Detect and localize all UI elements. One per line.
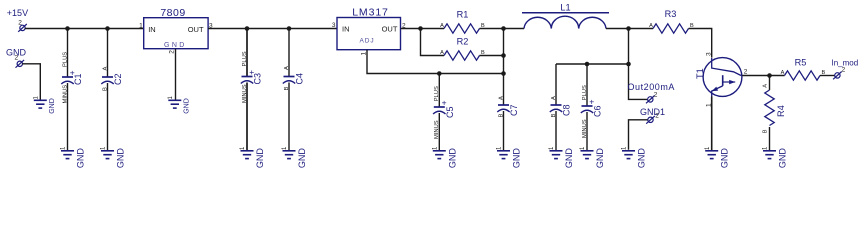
- svg-text:1: 1: [34, 96, 40, 100]
- wire T1 emitter to ground: [711, 97, 713, 151]
- svg-text:GND: GND: [447, 148, 457, 169]
- wire C6 top: [586, 64, 588, 106]
- ground C7: [497, 150, 510, 152]
- wire R2 left branch: [421, 29, 445, 56]
- svg-text:C8: C8: [562, 104, 572, 116]
- wire C3 bottom: [246, 83, 248, 151]
- wire LM317 OUT to R1: [401, 28, 444, 30]
- ground C2: [101, 150, 114, 152]
- svg-text:7809: 7809: [160, 7, 185, 19]
- svg-text:3: 3: [332, 22, 336, 29]
- svg-text:GND: GND: [116, 148, 126, 169]
- wire C8 top: [555, 64, 557, 105]
- resistor R1: [444, 24, 479, 33]
- svg-text:1: 1: [433, 146, 439, 150]
- svg-text:1: 1: [282, 146, 288, 150]
- svg-text:A: A: [781, 70, 785, 76]
- svg-text:C7: C7: [509, 104, 519, 116]
- node junction C6 tap: [585, 62, 590, 67]
- svg-text:2: 2: [655, 113, 659, 120]
- svg-text:GND: GND: [564, 148, 574, 169]
- svg-text:2: 2: [744, 68, 748, 75]
- svg-text:L1: L1: [560, 3, 570, 13]
- node junction C4: [287, 26, 292, 31]
- wire C3 top: [246, 29, 248, 77]
- node junction R2 left: [418, 26, 423, 31]
- svg-text:GND: GND: [297, 148, 307, 169]
- svg-text:Out200mA: Out200mA: [628, 82, 675, 92]
- wire L1 node down to Out200mA: [629, 29, 648, 100]
- node junction R1 right: [501, 26, 506, 31]
- wire R3 right to T1 collector: [689, 29, 712, 58]
- ground C6: [581, 150, 594, 152]
- wire C5 top: [438, 74, 440, 108]
- svg-text:A: A: [102, 67, 108, 71]
- wire +15V rail to 7809 IN: [25, 28, 144, 30]
- svg-text:1: 1: [360, 52, 367, 56]
- node junction L1 right: [626, 26, 631, 31]
- node junction C2: [105, 26, 110, 31]
- node junction lower line right: [626, 62, 631, 67]
- wire C7 bottom: [503, 111, 505, 150]
- svg-text:R3: R3: [665, 9, 677, 19]
- wire C4 bottom: [288, 83, 290, 151]
- svg-text:IN: IN: [342, 25, 350, 34]
- svg-text:2: 2: [168, 50, 175, 54]
- svg-text:PLUS: PLUS: [582, 85, 588, 100]
- wire R4 top: [769, 76, 771, 91]
- wire C1 bottom: [67, 83, 69, 150]
- svg-text:GND: GND: [637, 148, 647, 169]
- node junction C3: [245, 26, 250, 31]
- ground (T1): [705, 150, 718, 152]
- wire 7809 OUT to LM317 IN: [208, 28, 337, 30]
- svg-text:R4: R4: [776, 105, 786, 117]
- wire C2 top: [107, 29, 109, 78]
- ground (R4): [763, 150, 776, 152]
- svg-text:T1: T1: [695, 68, 705, 79]
- svg-text:2: 2: [842, 67, 846, 74]
- wire C6 bottom: [586, 112, 588, 150]
- svg-text:1: 1: [168, 96, 174, 100]
- node junction R2 right: [501, 53, 506, 58]
- svg-text:C2: C2: [113, 73, 123, 85]
- svg-text:2: 2: [15, 55, 19, 62]
- svg-text:R5: R5: [795, 57, 807, 67]
- svg-text:OUT: OUT: [382, 25, 398, 34]
- node junction R4 tap: [767, 73, 772, 78]
- wire R1 right to L1: [480, 28, 525, 30]
- svg-text:1: 1: [622, 146, 628, 150]
- svg-text:3: 3: [705, 52, 712, 56]
- svg-text:+: +: [589, 97, 594, 107]
- ground (input GND): [34, 99, 47, 101]
- capacitor C7: [498, 104, 509, 106]
- svg-text:GND: GND: [76, 148, 86, 169]
- wire lower filter line: [556, 63, 629, 65]
- svg-text:GND: GND: [778, 148, 788, 169]
- svg-text:+: +: [249, 67, 254, 77]
- svg-text:GND: GND: [595, 148, 605, 169]
- svg-text:B: B: [762, 129, 768, 133]
- svg-text:A: A: [440, 23, 444, 29]
- svg-text:R2: R2: [457, 36, 469, 46]
- svg-text:+15V: +15V: [7, 8, 28, 18]
- svg-text:1: 1: [705, 146, 711, 150]
- svg-text:GND: GND: [183, 98, 190, 114]
- svg-text:1: 1: [497, 146, 503, 150]
- svg-text:OUT: OUT: [188, 25, 204, 34]
- wire GND1 to ground: [629, 120, 648, 150]
- wire R5 to In_mod connector: [820, 75, 835, 77]
- wire 7809 GND pin down: [175, 49, 177, 100]
- node junction C1: [65, 26, 70, 31]
- ground C1: [61, 150, 74, 152]
- svg-text:1: 1: [763, 146, 769, 150]
- wire C5 bottom: [438, 113, 440, 150]
- wire L1 right to R3: [606, 28, 653, 30]
- svg-text:GND: GND: [49, 98, 56, 114]
- ground C4: [283, 150, 296, 152]
- svg-text:1: 1: [101, 146, 107, 150]
- svg-text:C4: C4: [295, 73, 305, 85]
- ground (7809 GND): [168, 99, 181, 101]
- wire R4 bottom to ground: [769, 127, 771, 150]
- svg-text:1: 1: [240, 146, 246, 150]
- svg-text:A: A: [649, 23, 653, 29]
- svg-text:C6: C6: [593, 105, 603, 117]
- svg-text:GND1: GND1: [640, 107, 665, 117]
- wire C8 bottom: [555, 111, 557, 150]
- svg-text:2: 2: [18, 19, 22, 26]
- svg-text:LM317: LM317: [352, 7, 389, 19]
- svg-text:A: A: [498, 96, 504, 100]
- wire node column right of R1/R2: [503, 29, 505, 106]
- svg-text:R1: R1: [457, 9, 469, 19]
- resistor R5: [785, 71, 821, 80]
- wire C2 bottom: [107, 83, 109, 150]
- resistor R3: [653, 24, 689, 33]
- svg-text:PLUS: PLUS: [242, 51, 248, 66]
- ground C3: [241, 150, 254, 152]
- svg-text:+: +: [70, 68, 75, 78]
- svg-text:IN: IN: [148, 25, 156, 34]
- ground C8: [550, 150, 563, 152]
- svg-text:PLUS: PLUS: [434, 86, 440, 101]
- svg-text:GND: GND: [255, 148, 265, 169]
- svg-text:A: A: [762, 84, 768, 88]
- svg-text:1: 1: [549, 146, 555, 150]
- svg-text:ADJ: ADJ: [360, 38, 375, 45]
- regulator U2 LM317: [337, 18, 401, 50]
- svg-text:1: 1: [580, 146, 586, 150]
- svg-text:A: A: [284, 66, 290, 70]
- node junction C5: [437, 71, 442, 76]
- svg-text:GND: GND: [512, 148, 522, 169]
- resistor R2: [444, 51, 479, 60]
- svg-text:A: A: [551, 96, 557, 100]
- svg-text:+: +: [442, 98, 447, 108]
- transistor T1: [703, 58, 742, 97]
- regulator U1 7809: [144, 18, 208, 49]
- ground C5: [433, 150, 446, 152]
- node junction ADJ line end: [501, 71, 506, 76]
- wire T1 base to R5: [742, 75, 784, 77]
- wire GND connector to ground: [22, 64, 40, 100]
- ground (GND1): [622, 150, 635, 152]
- svg-text:2: 2: [654, 91, 658, 98]
- wire C4 top: [288, 29, 290, 77]
- wire LM317 ADJ down and right: [367, 50, 504, 74]
- svg-text:GND: GND: [720, 148, 730, 169]
- svg-text:C5: C5: [445, 106, 455, 118]
- wire R2 right branch: [480, 55, 504, 57]
- svg-text:PLUS: PLUS: [62, 52, 68, 67]
- svg-text:1: 1: [139, 23, 143, 30]
- svg-text:1: 1: [61, 146, 67, 150]
- svg-text:GND: GND: [164, 42, 187, 49]
- wire C1 top: [67, 29, 69, 78]
